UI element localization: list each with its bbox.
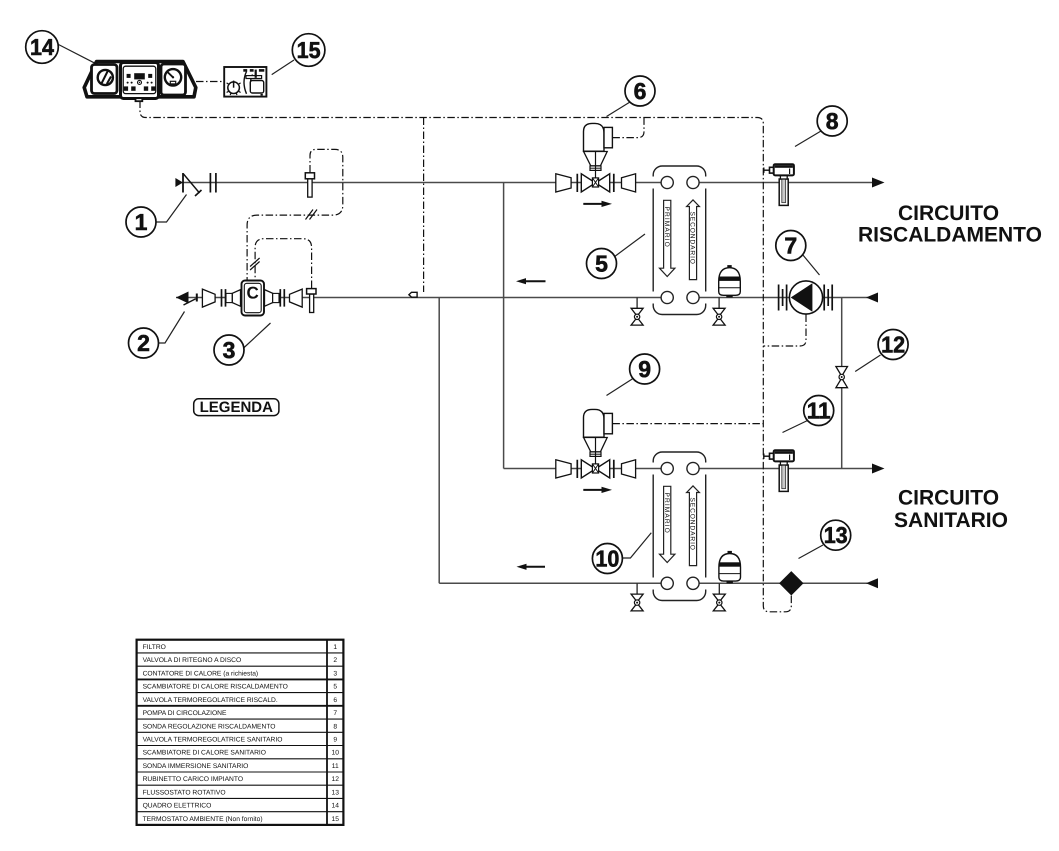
arrow: sanitary supply outlet bbox=[872, 464, 885, 474]
balloon 3 bbox=[214, 323, 271, 365]
union on heating supply bbox=[210, 173, 216, 193]
control wire: pump 7 bbox=[763, 315, 806, 347]
break mark on supply probe loop bbox=[306, 210, 318, 220]
balloon 9 bbox=[607, 354, 660, 396]
control wire: supply probe loop to meter bbox=[247, 149, 343, 280]
svg-text:1: 1 bbox=[333, 644, 337, 651]
arrow: heating return inlet (right) bbox=[866, 293, 878, 303]
text: circuito sanitario bbox=[894, 487, 1008, 532]
pipe: sanitary return bbox=[439, 582, 878, 584]
control panel 14 (quadro elettrico) bbox=[84, 62, 196, 102]
heat meter 3 assembly: left cone bbox=[202, 289, 215, 307]
svg-text:5: 5 bbox=[595, 250, 608, 276]
motorized valve 9 (valvola termoregolatrice sanitario) bbox=[556, 409, 636, 493]
svg-text:15: 15 bbox=[297, 37, 321, 63]
drain cock at control branch end bbox=[409, 292, 417, 297]
balloon 8 bbox=[795, 106, 847, 147]
svg-text:RUBINETTO CARICO IMPIANTO: RUBINETTO CARICO IMPIANTO bbox=[143, 776, 243, 783]
probe pocket on heating return bbox=[307, 289, 316, 313]
control wire: main dash-dot from panel to flow switch bbox=[140, 101, 791, 612]
svg-text:SANITARIO: SANITARIO bbox=[894, 509, 1008, 532]
sensor 8 (sonda regolazione riscaldamento) bbox=[763, 164, 794, 205]
control wire: valve 6 actuator bbox=[612, 118, 644, 138]
svg-text:10: 10 bbox=[331, 750, 339, 757]
arrow: heating supply outlet bbox=[872, 178, 885, 188]
drain valve under exchanger 10 secondary bbox=[713, 583, 725, 611]
balloon 7 bbox=[776, 231, 820, 276]
drain valve under exchanger 10 primary bbox=[631, 583, 643, 611]
probe pocket on heating supply bbox=[305, 173, 314, 197]
balloon 15 bbox=[272, 34, 325, 75]
svg-text:FLUSSOSTATO ROTATIVO: FLUSSOSTATO ROTATIVO bbox=[143, 789, 226, 796]
break mark on return probe loop bbox=[250, 258, 260, 270]
heat exchanger 5 (scambiatore riscaldamento) body bbox=[648, 166, 711, 315]
svg-text:12: 12 bbox=[881, 331, 905, 357]
flow arrow on heating return bbox=[516, 278, 546, 284]
control wire: valve 9 actuator bbox=[612, 423, 763, 425]
svg-text:SONDA IMMERSIONE SANITARIO: SONDA IMMERSIONE SANITARIO bbox=[143, 763, 249, 770]
control wire: return probe loop to meter bbox=[255, 239, 312, 288]
svg-text:7: 7 bbox=[784, 232, 797, 258]
motorized valve 6 (valvola termoregolatrice riscaldamento) bbox=[556, 123, 636, 207]
pipe: vertical primary return from sanitary exchanger bbox=[438, 298, 440, 584]
filling valve 12 (rubinetto carico impianto) bbox=[836, 367, 848, 388]
legenda label bbox=[194, 399, 279, 416]
pump 7 (pompa di circolazione) bbox=[779, 281, 833, 314]
svg-text:8: 8 bbox=[826, 108, 839, 134]
svg-text:14: 14 bbox=[331, 803, 339, 810]
svg-text:10: 10 bbox=[595, 545, 619, 571]
heat exchanger 10 (scambiatore sanitario) body bbox=[648, 452, 711, 601]
text: circuito riscaldamento bbox=[858, 202, 1042, 247]
flow switch 13 (flussostato rotativo) bbox=[779, 571, 803, 595]
expansion vessel sanitary bbox=[719, 551, 741, 583]
svg-text:9: 9 bbox=[638, 356, 651, 382]
pipe: heating supply (top) bbox=[183, 182, 872, 184]
svg-text:CIRCUITO: CIRCUITO bbox=[898, 202, 999, 225]
svg-text:6: 6 bbox=[333, 697, 337, 704]
balloon 6 bbox=[607, 76, 656, 117]
heat meter 3 assembly: left flanges bbox=[222, 289, 226, 307]
svg-text:C: C bbox=[247, 284, 259, 303]
control wire: panel to thermostat 15 bbox=[196, 81, 224, 83]
svg-text:CIRCUITO: CIRCUITO bbox=[898, 487, 999, 510]
sensor 11 (sonda immersione sanitario) bbox=[763, 450, 794, 491]
control wire: branch down to heat meter pocket bbox=[423, 118, 425, 293]
svg-text:5: 5 bbox=[333, 684, 337, 691]
balloon 1 bbox=[126, 195, 187, 238]
svg-text:3: 3 bbox=[333, 670, 337, 677]
heat meter 3 body C bbox=[242, 281, 265, 316]
svg-text:CONTATORE DI CALORE (a richies: CONTATORE DI CALORE (a richiesta) bbox=[143, 670, 259, 677]
primario/secondario arrows exchanger 5 bbox=[660, 200, 700, 280]
balloon 11 bbox=[783, 396, 834, 433]
balloon 10 bbox=[592, 533, 651, 574]
svg-text:QUADRO ELETTRICO: QUADRO ELETTRICO bbox=[143, 803, 212, 810]
arrow: sanitary return inlet (right) bbox=[866, 578, 878, 588]
room thermostat 15 bbox=[224, 67, 266, 97]
svg-text:VALVOLA TERMOREGOLATRICE RISCA: VALVOLA TERMOREGOLATRICE RISCALD. bbox=[143, 697, 278, 704]
pipe: vertical primary feed to sanitary valve bbox=[503, 183, 505, 469]
svg-text:VALVOLA DI RITEGNO A DISCO: VALVOLA DI RITEGNO A DISCO bbox=[143, 657, 242, 664]
heat meter 3 assembly: left neck and cone bbox=[226, 290, 241, 307]
balloon 5 bbox=[587, 234, 646, 279]
svg-text:15: 15 bbox=[331, 816, 339, 823]
drain valve under exchanger 5 primary bbox=[631, 298, 643, 326]
svg-text:RISCALDAMENTO: RISCALDAMENTO bbox=[858, 224, 1042, 247]
balloon 14 bbox=[26, 31, 95, 64]
heat meter 3 assembly: right cone and neck bbox=[265, 290, 280, 307]
svg-text:13: 13 bbox=[824, 522, 848, 548]
svg-text:FILTRO: FILTRO bbox=[143, 644, 166, 651]
svg-text:8: 8 bbox=[333, 723, 337, 730]
port circles exchanger 10 bbox=[661, 462, 699, 589]
filter 1 symbol bbox=[183, 173, 202, 196]
filter 1 inlet arrow bbox=[175, 178, 183, 187]
expansion vessel heating bbox=[719, 265, 741, 297]
svg-text:3: 3 bbox=[223, 337, 236, 363]
svg-text:SONDA REGOLAZIONE RISCALDAMENT: SONDA REGOLAZIONE RISCALDAMENTO bbox=[143, 723, 276, 730]
pipe: sanitary supply bbox=[504, 468, 872, 470]
svg-text:14: 14 bbox=[30, 34, 54, 60]
svg-text:7: 7 bbox=[333, 710, 337, 717]
svg-text:VALVOLA TERMOREGOLATRICE SANIT: VALVOLA TERMOREGOLATRICE SANITARIO bbox=[143, 737, 283, 744]
heat meter 3 assembly: outer right cone bbox=[290, 289, 303, 307]
flow arrow on sanitary return bbox=[517, 564, 546, 570]
svg-text:TERMOSTATO AMBIENTE (Non forni: TERMOSTATO AMBIENTE (Non fornito) bbox=[143, 816, 263, 823]
svg-text:SCAMBIATORE DI CALORE SANITARI: SCAMBIATORE DI CALORE SANITARIO bbox=[143, 750, 266, 757]
svg-text:SCAMBIATORE DI CALORE RISCALDA: SCAMBIATORE DI CALORE RISCALDAMENTO bbox=[143, 684, 288, 691]
svg-text:9: 9 bbox=[333, 737, 337, 744]
svg-text:1: 1 bbox=[135, 209, 148, 235]
svg-text:11: 11 bbox=[807, 397, 831, 423]
pipe: heating return bbox=[176, 297, 878, 299]
svg-text:LEGENDA: LEGENDA bbox=[200, 399, 274, 416]
pipe: filling line vertical with valve 12 bbox=[841, 298, 843, 469]
svg-text:2: 2 bbox=[333, 657, 337, 664]
balloon 2 bbox=[129, 312, 185, 359]
svg-text:2: 2 bbox=[137, 330, 150, 356]
svg-text:POMPA DI CIRCOLAZIONE: POMPA DI CIRCOLAZIONE bbox=[143, 710, 227, 717]
balloon 12 bbox=[855, 330, 908, 372]
legend table bbox=[137, 640, 344, 825]
heat meter 3 assembly: right flanges bbox=[280, 289, 284, 307]
svg-text:11: 11 bbox=[332, 763, 339, 770]
check valve 2 (valvola di ritegno) bbox=[176, 292, 197, 306]
svg-text:13: 13 bbox=[331, 789, 339, 796]
svg-text:6: 6 bbox=[634, 78, 647, 104]
svg-text:12: 12 bbox=[331, 776, 339, 783]
balloon 13 bbox=[799, 520, 851, 558]
drain valve under exchanger 5 secondary bbox=[713, 298, 725, 326]
primario/secondario arrows exchanger 10 bbox=[660, 486, 700, 566]
port circles exchanger 5 bbox=[661, 176, 699, 303]
